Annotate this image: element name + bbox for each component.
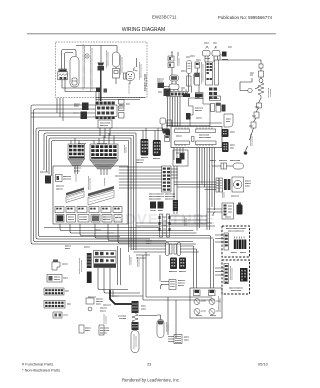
svg-text:EW23BC711: EW23BC711 (152, 15, 177, 20)
svg-text:23: 23 (147, 362, 151, 367)
svg-text:# Functional Parts: # Functional Parts (22, 362, 53, 367)
svg-text:Rendered by LeadVenture, Inc.: Rendered by LeadVenture, Inc. (122, 378, 180, 383)
svg-text:Publication No: 5995566774: Publication No: 5995566774 (218, 15, 273, 20)
svg-text:* Non-Illustrated Parts: * Non-Illustrated Parts (22, 368, 60, 373)
svg-text:05/10: 05/10 (258, 362, 269, 367)
svg-text:FREEZER: FREEZER (144, 73, 148, 91)
svg-text:WIRING DIAGRAM: WIRING DIAGRAM (122, 27, 165, 33)
